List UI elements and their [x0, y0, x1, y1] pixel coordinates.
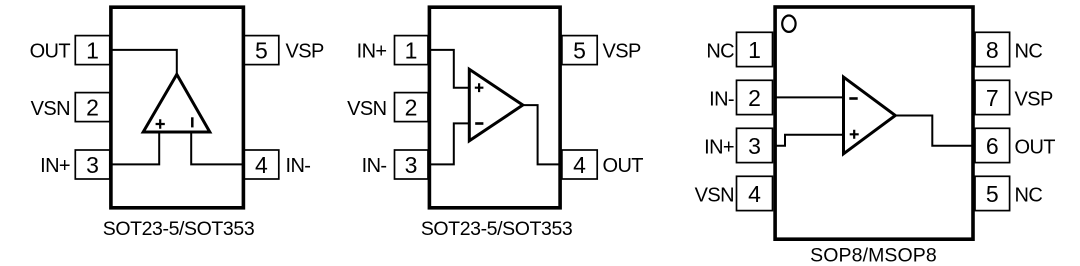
svg-text:4: 4	[748, 181, 761, 207]
plus mark (non-inverting input)	[156, 119, 165, 128]
op-amp U1 triangle (pointing up)	[143, 74, 210, 132]
pin box 5	[975, 176, 1010, 210]
svg-text:3: 3	[86, 152, 99, 178]
pin box 4	[737, 176, 773, 210]
wire OUT pin1 to op-amp apex	[110, 50, 177, 76]
svg-text:NC: NC	[1015, 184, 1043, 206]
wire IN+ pin1 to op-amp	[429, 50, 469, 88]
op-amp U1 triangle (pointing right)	[844, 77, 896, 154]
pin box 4	[562, 150, 597, 179]
svg-text:IN+: IN+	[40, 155, 70, 177]
pin box 8	[975, 32, 1010, 66]
svg-text:5: 5	[573, 37, 586, 63]
svg-text:1: 1	[86, 37, 99, 63]
svg-text:2: 2	[405, 94, 418, 120]
plus mark (non-inverting input)	[475, 83, 484, 92]
wire IN- pin3 to op-amp	[429, 123, 469, 164]
wire OUT op-amp to pin6	[893, 116, 973, 146]
svg-text:3: 3	[405, 152, 418, 178]
plus mark (non-inverting input)	[850, 130, 859, 139]
svg-text:VSN: VSN	[695, 184, 734, 206]
svg-text:1: 1	[748, 37, 761, 63]
wire IN- pin4 to op-amp	[191, 131, 244, 164]
pin box 3	[75, 150, 110, 179]
svg-text:OUT: OUT	[1015, 136, 1056, 158]
svg-text:7: 7	[986, 85, 999, 111]
svg-text:OUT: OUT	[603, 155, 644, 177]
svg-text:3: 3	[748, 133, 761, 159]
minus mark (inverting input)	[849, 97, 857, 100]
wire OUT op-amp to pin4	[521, 105, 561, 164]
pin box 3	[395, 150, 429, 179]
package body SOP8	[775, 7, 973, 239]
svg-text:4: 4	[573, 152, 586, 178]
svg-text:NC: NC	[1015, 40, 1043, 62]
svg-text:2: 2	[748, 85, 761, 111]
minus mark (inverting input)	[475, 122, 483, 125]
wire IN+ pin3 to op-amp	[110, 131, 159, 164]
op-amp U1 triangle (pointing right)	[469, 69, 523, 141]
svg-text:5: 5	[255, 37, 268, 63]
svg-text:SOP8/MSOP8: SOP8/MSOP8	[810, 244, 937, 266]
svg-text:IN-: IN-	[709, 88, 734, 110]
package body SOT23-5	[429, 7, 560, 208]
pin box 7	[975, 80, 1010, 114]
svg-text:OUT: OUT	[30, 41, 71, 63]
minus mark rotated (inverting input)	[191, 117, 194, 127]
package body SOT23-5	[111, 7, 244, 208]
svg-text:SOT23-5/SOT353: SOT23-5/SOT353	[421, 218, 573, 240]
pin box 1	[395, 36, 429, 65]
svg-text:VSP: VSP	[1015, 88, 1053, 110]
pin box 6	[975, 128, 1010, 162]
svg-text:VSN: VSN	[31, 98, 70, 120]
svg-text:VSP: VSP	[286, 41, 324, 63]
pin box 3	[737, 128, 773, 162]
wire IN- pin2 to op-amp	[775, 96, 844, 98]
svg-text:IN-: IN-	[286, 155, 311, 177]
pin box 4	[244, 150, 279, 179]
svg-text:SOT23-5/SOT353: SOT23-5/SOT353	[103, 218, 255, 240]
svg-text:IN+: IN+	[357, 41, 387, 63]
pin box 1	[75, 36, 110, 65]
svg-text:NC: NC	[706, 40, 734, 62]
svg-text:IN-: IN-	[362, 155, 387, 177]
svg-text:VSN: VSN	[347, 98, 386, 120]
svg-text:IN+: IN+	[704, 136, 734, 158]
pin box 2	[395, 93, 429, 122]
pin box 1	[737, 32, 773, 66]
svg-text:8: 8	[986, 37, 999, 63]
wire IN+ pin3 to op-amp	[775, 135, 844, 146]
pin box 5	[244, 36, 279, 65]
svg-text:5: 5	[986, 181, 999, 207]
svg-text:1: 1	[405, 37, 418, 63]
pin box 2	[737, 80, 773, 114]
svg-text:2: 2	[86, 94, 99, 120]
svg-text:6: 6	[986, 133, 999, 159]
pin 1 indicator circle	[782, 16, 795, 32]
svg-text:VSP: VSP	[603, 41, 641, 63]
svg-text:4: 4	[255, 152, 268, 178]
pin box 5	[562, 36, 597, 65]
pin box 2	[75, 93, 110, 122]
